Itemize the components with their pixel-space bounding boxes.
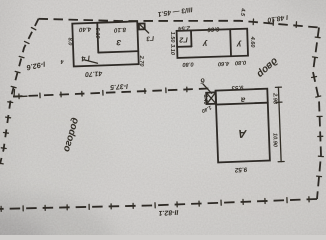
building A outer rect [215,89,269,163]
svg-text:2.98: 2.98 [272,92,278,105]
building A (bottom-right block) [203,81,284,164]
annex G3 hatch [139,24,144,29]
svg-text:0.80: 0.80 [181,61,193,68]
svg-text:4.40: 4.40 [78,25,92,33]
dimension line right of A [278,87,281,161]
svg-text:9.52: 9.52 [234,165,247,173]
leader to G3 label [145,29,149,33]
boundary fence: right dashed line [313,28,321,200]
boundary fence: bottom dashed line [0,199,317,209]
svg-text:Г3: Г3 [146,34,155,42]
svg-text:6.66: 6.66 [207,25,220,33]
svg-text:8.0: 8.0 [66,38,72,47]
svg-text:I-37.5: I-37.5 [110,82,128,90]
svg-text:10.90: 10.90 [271,133,277,148]
svg-text:а: а [240,96,245,105]
mid fence ticks [19,87,187,99]
junction corner mark at mid fence / left boundary [14,90,27,97]
svg-text:у: у [236,40,242,49]
leader line from porch to label b [203,84,212,94]
paper shading: top-right corner [279,0,326,20]
long building G2/U/U (top-right block) [177,29,248,58]
strip a divider [216,103,268,105]
porch hatched square [206,92,216,104]
boundary fence: left dashed line [0,19,39,164]
top fence ticks [253,19,296,27]
building G4+Z (top-left block) [72,21,149,66]
paper shading: left edge shadow [0,0,30,235]
svg-text:9.53: 9.53 [231,84,244,92]
svg-text:Г4: Г4 [81,54,90,64]
long building outer rect [177,29,248,58]
svg-text:8.10: 8.10 [113,26,126,34]
right boundary ticks [312,37,324,177]
label G4 underline stroke [84,60,98,63]
partition wall vertical (Z cell) [97,23,98,53]
porch hatch X [207,93,216,104]
svg-text:2.70: 2.70 [138,55,144,68]
svg-text:З: З [116,38,121,47]
svg-text:1.40: 1.40 [202,94,208,104]
svg-text:4.5: 4.5 [239,7,246,17]
partition wall horizontal (Z cell) [98,51,138,52]
right cell wall [229,29,232,56]
cell G2 horizontal wall [177,45,191,47]
svg-text:А: А [238,127,248,139]
svg-text:2.54: 2.54 [177,24,191,32]
svg-text:41.70: 41.70 [85,69,104,77]
svg-text:у: у [202,40,208,49]
paper mottling [0,102,110,198]
svg-text:4.60: 4.60 [249,36,255,49]
left boundary ticks [0,28,36,164]
svg-text:1.50: 1.50 [169,32,175,44]
svg-text:II-82.1: II-82.1 [158,208,178,216]
boundary fence: top dashed line [39,19,320,28]
svg-text:3.10: 3.10 [169,44,175,56]
cell G2 vertical wall [190,30,193,46]
mid fence line I-37.5 [13,89,209,97]
annex G3 small square [139,23,145,29]
building G4 outer rect [72,21,138,66]
svg-text:0.80: 0.80 [234,59,246,66]
svg-text:4.60: 4.60 [217,60,230,67]
svg-text:5.10: 5.10 [94,28,100,40]
bottom boundary ticks [1,197,309,212]
svg-text:Г2: Г2 [179,35,188,44]
